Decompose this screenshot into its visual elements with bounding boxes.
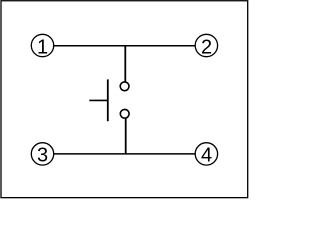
svg-text:1: 1 — [37, 36, 48, 58]
svg-text:3: 3 — [37, 145, 48, 167]
actuator: push-button plunger bar — [107, 79, 109, 121]
terminal 2 — [195, 34, 217, 58]
terminal 3 — [31, 143, 53, 167]
wire: vertical from lower contact down to bottom rail — [125, 118, 127, 154]
svg-text:2: 2 — [201, 36, 212, 58]
wire: vertical from top rail down to upper contact — [124, 46, 126, 82]
svg-text:4: 4 — [201, 145, 212, 167]
wire: top rail from terminal 1 to terminal 2 — [54, 45, 196, 47]
actuator: push direction stem — [89, 99, 108, 101]
switch contact: upper fixed contact — [120, 82, 129, 91]
terminal 1 — [31, 34, 53, 58]
wire: bottom rail from terminal 3 to terminal 4 — [54, 153, 196, 155]
switch contact: lower fixed contact — [120, 109, 129, 118]
terminal 4 — [195, 143, 217, 167]
